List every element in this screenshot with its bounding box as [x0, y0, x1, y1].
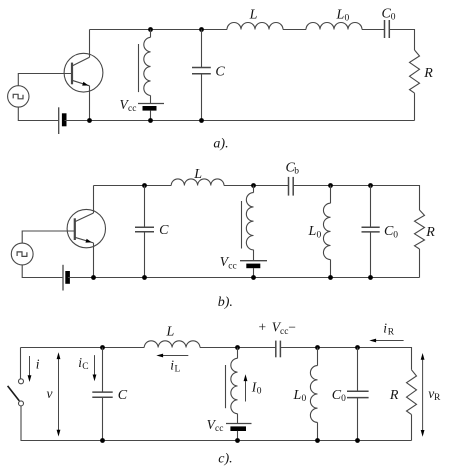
arrow v (voltage, double-headed): [57, 352, 61, 436]
inductor L (circuit a): [227, 23, 283, 30]
svg-text:R: R: [434, 393, 441, 403]
node capacitor C top: [100, 345, 105, 350]
wire R to bottom rail: [411, 415, 413, 441]
wire Vcc battery to bottom rail: [150, 111, 152, 121]
svg-text:0: 0: [257, 386, 262, 396]
wire source bottom to battery: [22, 265, 62, 278]
inductor L0 (circuit b): [323, 186, 330, 278]
node C0 top: [355, 345, 360, 350]
inductor L (circuit c): [144, 341, 200, 348]
wire emitter to bottom rail: [93, 243, 95, 278]
node choke bottom: [235, 438, 240, 443]
resistor R (circuit c): [407, 370, 417, 415]
svg-text:L: L: [249, 7, 258, 22]
arrow I0 (points up): [244, 374, 248, 401]
wire bottom rail: [68, 277, 420, 279]
label C0 (circuit b): [384, 224, 398, 240]
svg-text:L: L: [293, 388, 302, 403]
transistor Q2: [67, 209, 105, 247]
svg-text:b).: b).: [218, 295, 233, 310]
svg-text:R: R: [389, 388, 399, 403]
node choke bottom: [251, 275, 256, 280]
wire R to bottom rail: [414, 93, 416, 120]
svg-text:i: i: [36, 356, 40, 371]
switch S (open): [8, 379, 24, 441]
label iC: [78, 355, 88, 372]
wire top rail left: [90, 29, 228, 31]
svg-text:L: L: [336, 7, 345, 22]
node choke top: [235, 345, 240, 350]
capacitor C0 (circuit a): [385, 20, 390, 38]
resistor R (circuit a): [410, 50, 420, 93]
wire C top lead: [144, 186, 146, 228]
battery V1: [59, 107, 64, 134]
node C0 bottom: [368, 275, 373, 280]
wire source top to transistor base: [18, 74, 72, 86]
svg-text:cc: cc: [228, 261, 236, 271]
node capacitor C top: [142, 183, 147, 188]
wire collector to top rail: [93, 186, 95, 214]
wire C bottom lead: [102, 397, 104, 440]
node choke top: [251, 183, 256, 188]
node choke top: [148, 27, 153, 32]
wire C bottom lead: [144, 232, 146, 278]
wire collector to top rail: [89, 30, 91, 58]
svg-text:C: C: [118, 388, 128, 403]
svg-text:0: 0: [302, 394, 307, 404]
svg-text:a).: a).: [213, 137, 228, 152]
arrow vR (voltage across R, double-headed): [421, 353, 425, 437]
arrow iL (points left): [156, 354, 188, 358]
wire top rail left segment: [21, 347, 145, 349]
node capacitor C bottom: [142, 275, 147, 280]
label Vcc (circuit c): [207, 417, 224, 434]
svg-text:0: 0: [391, 13, 396, 23]
RF choke Lch (circuit a): [139, 30, 151, 104]
resistor R (circuit b): [415, 210, 425, 249]
source G1 (signal generator): [8, 86, 29, 107]
wire C0 to resistor R: [389, 30, 414, 51]
label Vcc (circuit b): [220, 254, 237, 271]
arrow i (current into circuit): [28, 356, 32, 382]
wire Cb to right corner and down to R: [293, 186, 419, 211]
svg-text:cc: cc: [215, 424, 223, 434]
node L0 bottom: [328, 275, 333, 280]
capacitor C (circuit b): [135, 227, 154, 232]
wire C top lead: [102, 348, 104, 393]
label vR: [428, 386, 441, 403]
node L0 top: [328, 183, 333, 188]
svg-text:R: R: [388, 328, 395, 338]
inductor L0 (circuit a): [306, 23, 362, 30]
wire L0 to C0: [362, 29, 384, 31]
inductor L0 (circuit c): [310, 348, 317, 441]
label C0 (circuit c): [332, 388, 346, 404]
label + Vcc - (coupling capacitor polarity): [259, 320, 296, 337]
capacitor C0 (circuit c): [347, 348, 369, 441]
svg-text:b: b: [294, 167, 299, 177]
wire C top lead: [201, 30, 203, 68]
svg-text:R: R: [425, 225, 435, 240]
svg-text:0: 0: [345, 14, 350, 24]
RF choke Lch (circuit b): [242, 186, 254, 261]
node capacitor C top: [199, 27, 204, 32]
node L0 top: [315, 345, 320, 350]
capacitor C (circuit a): [192, 68, 211, 74]
svg-text:C: C: [215, 65, 225, 80]
node C0 top: [368, 183, 373, 188]
capacitor Cb: [289, 177, 294, 196]
node L0 bottom: [315, 438, 320, 443]
wire bottom rail: [65, 120, 415, 122]
wire L to Cb: [224, 185, 288, 187]
label L0 (circuit b): [308, 224, 322, 240]
node capacitor C bottom: [100, 438, 105, 443]
battery V2: [63, 265, 68, 291]
label L0 (circuit a): [336, 7, 350, 23]
wire R to bottom rail: [419, 249, 421, 278]
wire top rail left: [94, 185, 172, 187]
battery Vcc (circuit b): [240, 261, 267, 266]
svg-text:c).: c).: [218, 452, 232, 467]
battery Vcc (circuit c): [226, 424, 252, 429]
wire coupling capacitor to right corner and down to R: [280, 348, 411, 370]
svg-text:−: −: [288, 320, 296, 335]
label C0 (circuit a): [382, 7, 396, 23]
wire Vcc battery to bottom rail: [253, 268, 255, 278]
svg-text:v: v: [47, 386, 53, 401]
wire source top to transistor base: [22, 231, 75, 243]
wire C bottom lead: [201, 74, 203, 121]
label iL: [170, 357, 180, 374]
svg-text:R: R: [423, 66, 433, 81]
arrow iC: [93, 355, 97, 381]
label I0: [251, 379, 262, 396]
wire L to L0: [283, 29, 306, 31]
wire source bottom to battery: [18, 107, 58, 120]
svg-text:i: i: [383, 321, 387, 336]
wire emitter to bottom rail: [89, 86, 91, 121]
svg-text:cc: cc: [128, 104, 136, 114]
svg-text:L: L: [308, 224, 317, 239]
RF choke Lch (circuit c): [226, 348, 238, 424]
svg-text:0: 0: [317, 230, 322, 240]
node emitter-bottom junction: [91, 275, 96, 280]
label Vcc (circuit a): [120, 97, 137, 114]
wire Vcc battery to bottom rail: [237, 431, 239, 441]
svg-text:0: 0: [393, 230, 398, 240]
battery Vcc (circuit a): [138, 104, 164, 109]
svg-text:L: L: [175, 364, 181, 374]
inductor L (circuit b): [171, 179, 224, 186]
svg-text:0: 0: [341, 394, 346, 404]
svg-text:+: +: [259, 320, 267, 335]
svg-text:C: C: [82, 362, 88, 372]
node C0 bottom: [355, 438, 360, 443]
label iR: [383, 321, 394, 338]
node choke bottom: [148, 118, 153, 123]
wire L to coupling capacitor: [200, 347, 276, 349]
label L0 (circuit c): [293, 388, 307, 404]
wire bottom rail: [21, 440, 412, 442]
capacitor C (circuit c): [92, 392, 112, 397]
source G2 (signal generator): [11, 243, 33, 265]
capacitor Ccoup (+Vcc-): [276, 341, 281, 358]
svg-text:L: L: [166, 324, 175, 339]
label Cb: [286, 160, 300, 176]
capacitor C0 (circuit b): [362, 186, 380, 278]
svg-text:L: L: [193, 167, 202, 182]
arrow iR (points left): [369, 339, 403, 343]
wire top-left corner down to switch: [20, 348, 22, 379]
transistor Q1: [64, 53, 103, 92]
svg-text:cc: cc: [280, 327, 288, 337]
node emitter-bottom junction: [87, 118, 92, 123]
svg-text:C: C: [159, 223, 169, 238]
node capacitor C bottom: [199, 118, 204, 123]
